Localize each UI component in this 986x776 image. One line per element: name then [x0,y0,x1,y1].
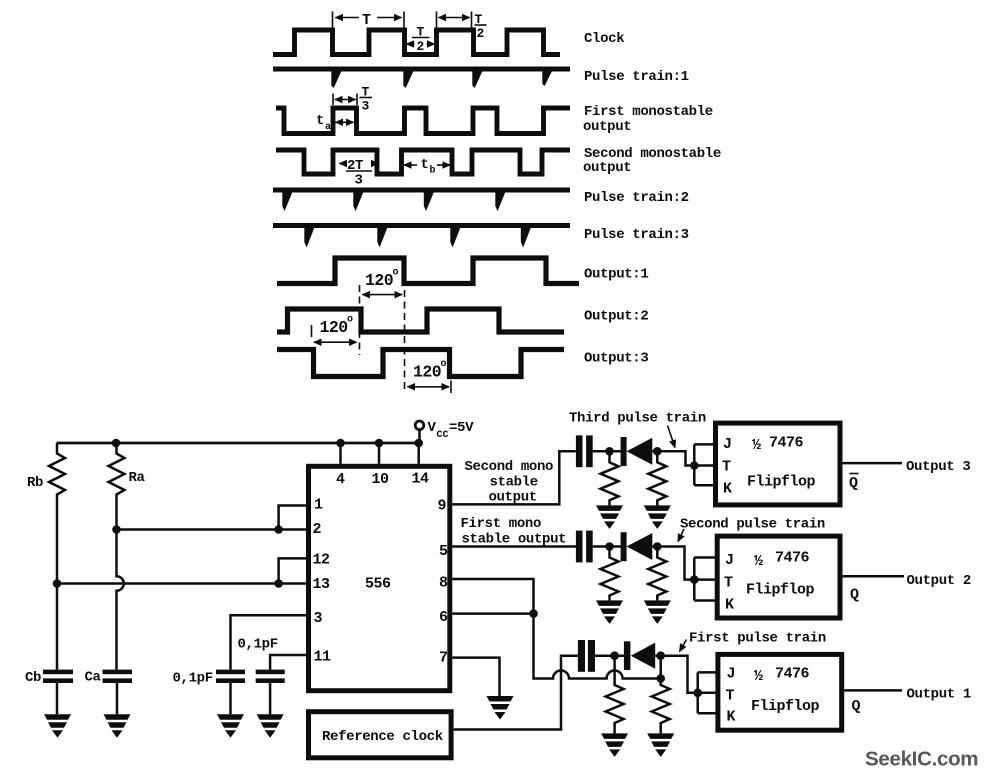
svg-text:5: 5 [439,543,448,560]
resistor chain2 R2 [648,547,666,601]
svg-text:Q: Q [849,475,858,492]
clock waveform [273,30,560,55]
wire pin 8 down to pin 6 [452,579,533,614]
Vcc label [428,420,475,441]
first monostable waveform [276,108,570,134]
svg-text:T: T [362,12,371,29]
svg-text:First pulse train: First pulse train [689,631,826,647]
svg-text:14: 14 [412,471,430,488]
svg-text:0,1pF: 0,1pF [173,671,213,687]
output 3 waveform [277,350,564,377]
node: Ra-pin2 junction [112,525,121,534]
node chain1 A [605,447,614,456]
node: pin12 hook junction [274,579,283,588]
second monostable waveform [276,150,570,174]
svg-text:½: ½ [754,553,763,570]
wire diode to FF1 [652,451,694,465]
label second mono stable output [465,459,554,506]
svg-text:120: 120 [320,318,348,337]
wire cap to diode chain2 [593,545,621,548]
svg-text:Flipflop: Flipflop [751,698,820,715]
svg-text:Pulse train:3: Pulse train:3 [584,227,689,243]
diode D3 [624,641,655,670]
flip-flop U3 7476 box [717,536,840,618]
wire Ra down with hop over pin13 wire [117,530,124,670]
svg-text:T: T [724,575,733,592]
svg-text:Rb: Rb [27,475,43,491]
wire pin6 node down to chain3 line with hops [534,614,661,679]
ground chain1 R2 [644,505,671,529]
svg-text:t: t [421,157,429,173]
node: rail-Ra junction [112,439,121,448]
svg-text:3: 3 [314,610,323,627]
svg-text:2: 2 [417,39,425,54]
node: rail-pin4 junction [336,439,345,448]
svg-text:Q: Q [850,587,859,604]
node pin6-pin8 junction [529,609,538,618]
wire rail to pin 10 [378,443,381,464]
node chain3 B [656,651,665,660]
svg-text:First monostable: First monostable [584,104,713,120]
wire pin 11 to cap [270,655,306,670]
wire pin 7 to ground [452,658,499,696]
svg-text:2: 2 [477,26,485,41]
svg-text:3: 3 [362,99,370,114]
ta annotation [316,113,354,133]
capacitor chain1 coupling [576,435,583,467]
svg-text:Output 3: Output 3 [906,459,970,475]
svg-text:J: J [725,552,734,569]
output 1 waveform [277,258,579,284]
svg-text:o: o [347,315,353,326]
svg-text:13: 13 [313,576,331,593]
svg-text:b: b [430,165,436,177]
svg-text:½: ½ [754,668,763,685]
pulse train 2 waveform [273,188,570,193]
FF3 input stubs J T K [698,672,718,713]
resistor chain1 R1 [601,451,619,505]
resistor chain1 R2 [648,451,666,505]
wire pin 6 [452,612,533,615]
svg-text:o: o [393,268,399,279]
Vcc supply rail [57,442,420,445]
svg-text:Flipflop: Flipflop [746,582,815,599]
half period arrow annotation [437,12,487,42]
Vcc terminal [415,421,424,430]
svg-text:K: K [727,709,736,726]
svg-text:a: a [325,122,331,133]
svg-text:Second mono: Second mono [465,459,554,475]
120deg annotation 2 [312,315,357,343]
wire pin 12 hook [279,558,306,583]
svg-text:Reference clock: Reference clock [322,729,443,745]
node: pin1 hook junction [274,525,283,534]
svg-text:120: 120 [365,271,393,290]
svg-text:SeekIC.com: SeekIC.com [865,748,978,771]
wire rail to pin 14 [417,443,420,464]
svg-text:9: 9 [438,498,447,515]
ground under second 0,1pF [257,714,284,738]
svg-text:T: T [722,459,731,476]
svg-text:4: 4 [336,471,345,488]
capacitor 0,1pF second [256,670,285,675]
diode D2 [621,532,653,561]
svg-text:output: output [583,119,631,135]
svg-text:½: ½ [752,437,761,454]
ground chain3 R1 [601,733,628,757]
dashed phase line B [404,290,406,389]
120deg annotation 3 [408,359,452,393]
wire diode to FF2 [652,547,694,580]
wire pin 1 hook [279,506,306,530]
ground at pin 7 [487,696,514,720]
svg-text:stable: stable [490,475,538,491]
svg-text:stable output: stable output [462,532,567,548]
svg-text:Output 2: Output 2 [907,573,971,589]
dashed phase line A [359,285,361,355]
svg-text:Clock: Clock [584,31,624,47]
wire chain3 B down to lower line [659,656,662,679]
T/3 annotation [333,85,372,114]
svg-text:CC: CC [437,430,449,441]
node: rail-pin10 junction [375,439,384,448]
svg-text:K: K [725,597,734,614]
node: rail-pin14 junction [414,439,423,448]
wire output 1 [844,689,902,692]
wire pin 13 [57,582,306,585]
svg-text:1: 1 [314,497,323,514]
capacitor chain3 coupling [578,640,585,672]
resistor chain3 R1 [606,656,624,734]
svg-text:First mono: First mono [461,516,542,532]
wire pin 5 to chain 2 [452,545,576,548]
svg-text:8: 8 [439,575,448,592]
flip-flop U4 7476 box [718,654,842,730]
FF2 input stubs J T K [694,558,717,601]
svg-text:Second pulse train: Second pulse train [680,517,825,533]
svg-text:556: 556 [365,576,391,593]
node chain3 C [656,674,665,683]
wire reference clock to chain 3 [454,656,579,730]
ground chain2 R2 [644,600,671,624]
resistor chain3 R2 [652,679,670,734]
svg-text:3: 3 [355,173,363,189]
svg-text:Flipflop: Flipflop [747,474,816,491]
wire cap to diode chain1 [593,450,621,453]
node: Rb-pin13 junction [53,579,62,588]
svg-text:6: 6 [439,609,448,626]
svg-text:Ra: Ra [129,470,146,486]
wire cap to diode chain3 [595,654,625,657]
ground chain3 R2 [647,733,674,757]
resistor Ra [109,443,125,530]
capacitor chain2 coupling [576,531,583,563]
svg-text:Pulse train:1: Pulse train:1 [584,69,689,85]
capacitor Ca [103,670,133,675]
wire diode to FF3 [655,656,698,693]
resistor chain2 R1 [601,547,619,601]
ground chain1 R1 [596,505,623,529]
svg-text:Output:1: Output:1 [584,267,648,283]
svg-text:0,1pF: 0,1pF [238,637,278,653]
svg-text:J: J [727,666,736,683]
node chain2 A [605,542,614,551]
svg-text:Output 1: Output 1 [907,687,971,703]
svg-text:o: o [441,359,447,370]
output 2 waveform [277,309,564,332]
svg-text:10: 10 [372,471,390,488]
svg-text:K: K [723,481,732,498]
svg-text:Q: Q [852,698,861,715]
waveform row labels [583,31,721,367]
svg-text:t: t [316,113,324,129]
svg-text:=5V: =5V [449,420,474,436]
ground under first 0,1pF [217,714,244,738]
period T annotation [333,12,405,30]
svg-text:Output:3: Output:3 [584,351,648,367]
svg-text:Cb: Cb [25,670,41,686]
wire pin 2 [117,528,307,531]
svg-text:Pulse train:2: Pulse train:2 [584,190,689,206]
svg-text:T: T [726,688,735,705]
pulse train 1 waveform [273,67,570,72]
wire rail to pin 4 [339,443,342,464]
wire output 3 [843,462,903,465]
ground under Ca [104,714,131,738]
svg-text:11: 11 [314,649,332,666]
capacitor Cb [43,670,73,675]
svg-text:12: 12 [313,552,331,569]
svg-text:2: 2 [313,521,322,538]
FF1 input stubs J T K [694,444,715,485]
pulse train 3 waveform [273,223,570,228]
svg-text:output: output [583,160,631,176]
svg-text:7476: 7476 [775,550,810,567]
node chain1 B [653,447,662,456]
120deg annotation 1 [363,268,403,295]
ground chain2 R1 [596,600,623,624]
capacitor 0,1pF first [216,670,245,675]
svg-text:V: V [428,420,437,436]
Reference clock box [309,712,452,758]
svg-text:Third pulse train: Third pulse train [569,411,706,427]
flip-flop U2 7476 box [716,423,841,505]
node chain3 A [610,651,619,660]
svg-text:Output:2: Output:2 [584,309,648,325]
svg-text:output: output [489,490,537,506]
wire pin 9 to chain 1 [452,451,576,504]
node chain2 B [653,542,662,551]
diode D1 [621,437,653,466]
IC U1 556 timer box [309,466,450,690]
2T/3 annotation [340,158,379,189]
label first mono stable output [461,516,567,548]
resistor Rb [49,443,65,670]
svg-text:120: 120 [413,363,441,382]
T/2 fraction annotation [407,25,435,55]
svg-text:J: J [723,436,732,453]
svg-text:7: 7 [439,650,448,667]
ground under Cb [44,714,71,738]
wire output 2 [843,575,905,578]
tb annotation [404,157,450,177]
svg-text:7476: 7476 [769,435,804,452]
svg-text:Ca: Ca [85,670,102,686]
wire pin 3 to cap [231,615,307,669]
svg-text:7476: 7476 [775,666,810,683]
